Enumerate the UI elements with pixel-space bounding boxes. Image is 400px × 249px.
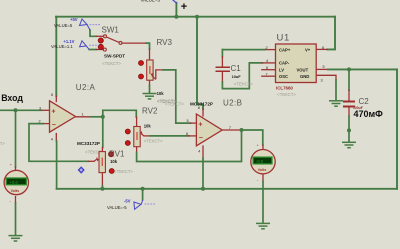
svg-text:U2:B: U2:B: [223, 99, 242, 108]
svg-text:Volts: Volts: [258, 168, 267, 172]
svg-text:8: 8: [198, 106, 200, 110]
ground below C2: [342, 142, 356, 147]
node junction U2:B pin4 rail: [201, 187, 205, 191]
svg-text:C2: C2: [359, 97, 370, 106]
wire U1 CAP+ pin2 to C1: [265, 49, 276, 51]
svg-text:+5V: +5V: [70, 17, 78, 22]
wire U2:B output pin7: [222, 129, 240, 131]
svg-text:5: 5: [187, 119, 189, 123]
svg-text:7: 7: [266, 72, 268, 76]
svg-text:<ТЕКСТ>: <ТЕКСТ>: [0, 141, 5, 146]
svg-text:VOUT: VOUT: [297, 67, 309, 72]
wire U2:B pin4 to -5V rail: [202, 146, 204, 158]
ground below U1 pin3: [329, 101, 343, 106]
wire U2:B pin8 stub: [202, 109, 204, 116]
wire U1 V+ branch: [328, 17, 336, 50]
wire U1 LV pin6 stub: [262, 69, 276, 71]
svg-text:<ТЕКСТ>: <ТЕКСТ>: [144, 138, 163, 143]
power terminal -5V: [134, 200, 155, 209]
wire U2:A output pin1: [76, 116, 91, 118]
wire U2:B supply drop: [197, 17, 203, 109]
svg-text:VALUE=1.1: VALUE=1.1: [51, 44, 73, 49]
potentiometer RV1: [94, 152, 105, 173]
svg-text:VALUE=-5: VALUE=-5: [107, 205, 127, 210]
svg-text:CAP+: CAP+: [279, 47, 291, 52]
svg-text:ICL7660: ICL7660: [276, 86, 293, 91]
svg-text:-0.0: -0.0: [256, 159, 264, 164]
power terminal +1.1V: [80, 41, 99, 50]
node junction input x=15.5: [14, 108, 18, 112]
svg-text:2: 2: [39, 120, 41, 124]
svg-text:4: 4: [51, 138, 53, 142]
wire U2:A pin2 feedback: [43, 123, 49, 125]
ground below voltmeter2: [256, 223, 270, 228]
wire SW1 pole to RV3 top: [122, 42, 146, 44]
wire C2 top lead: [348, 69, 350, 90]
wire top feed from edge at x=163: [175, 3, 177, 17]
svg-text:8: 8: [322, 46, 324, 50]
wire C1 top lead: [221, 50, 223, 57]
voltmeter VM2: [251, 150, 275, 174]
wire U2:A pin4 to -5V rail: [55, 134, 57, 142]
node junction output U2:B: [240, 128, 244, 132]
svg-text:7: 7: [229, 126, 231, 130]
svg-text:6: 6: [266, 66, 268, 70]
node junction VOUT C2: [347, 67, 351, 71]
capacitor C2: [343, 102, 355, 107]
potentiometer RV2: [134, 127, 144, 147]
svg-text:470мФ: 470мФ: [354, 109, 384, 119]
svg-text:<ТЕКСТ>: <ТЕКСТ>: [157, 99, 176, 104]
svg-text:SW1: SW1: [102, 25, 120, 34]
svg-text:<ТЕКСТ>: <ТЕКСТ>: [277, 92, 296, 97]
wire U1 OSC pin7 stub: [262, 75, 276, 77]
svg-text:+: +: [181, 1, 187, 13]
svg-text:<ТЕКСТ>: <ТЕКСТ>: [114, 169, 133, 174]
potentiometer RV3: [147, 60, 156, 80]
wire input Вход to U2:A pin3: [0, 109, 42, 111]
svg-text:SW-SPDT: SW-SPDT: [104, 54, 125, 59]
svg-text:MC33172P: MC33172P: [77, 141, 100, 146]
wire SW1 upper throw: [90, 30, 96, 36]
svg-text:RV2: RV2: [142, 106, 158, 115]
svg-text:3: 3: [321, 78, 323, 82]
node junction top rail x=163: [174, 15, 178, 19]
svg-text:U1: U1: [277, 33, 290, 44]
svg-text:+: +: [52, 108, 56, 115]
svg-text:10uF: 10uF: [232, 74, 242, 79]
svg-text:Volts: Volts: [11, 189, 20, 193]
svg-text:6: 6: [186, 132, 188, 136]
svg-text:4: 4: [266, 59, 268, 63]
wire U1 pin8 stub: [316, 48, 327, 50]
wire U1 VOUT pin5: [316, 68, 328, 70]
svg-text:3: 3: [39, 106, 41, 110]
wire voltmeter1 minus to ground: [15, 197, 17, 203]
node junction output U2:A: [101, 115, 105, 119]
node pin labels U2:B: [186, 106, 231, 153]
wire U2:A pin8 stub: [55, 96, 57, 102]
svg-text:MC33172P: MC33172P: [190, 101, 213, 106]
svg-text:GND: GND: [300, 74, 309, 79]
wire RV2 wiper to U2:B pin6: [144, 135, 150, 137]
node blue diamond marker: [78, 166, 85, 173]
svg-text:+1.1V: +1.1V: [63, 39, 74, 44]
wire output to RV2 top: [103, 110, 137, 117]
wire output to RV1 top: [102, 110, 104, 147]
svg-text:CAP-: CAP-: [279, 61, 290, 66]
ground below RV3: [143, 94, 157, 99]
wire -5V terminal drop: [142, 189, 144, 200]
wire voltmeter2 minus to ground: [262, 174, 264, 182]
wire left vertical rail to U2:A pin8: [55, 17, 57, 96]
svg-text:V+: V+: [305, 47, 311, 52]
wire RV3 wiper to U2:B pin5: [156, 70, 163, 79]
wire voltmeter1 plus lead: [15, 110, 17, 167]
svg-text:<ТЕКСТ>: <ТЕКСТ>: [102, 61, 121, 66]
capacitor C1: [215, 67, 229, 71]
svg-text:10k: 10k: [157, 91, 165, 96]
svg-text:VALUE=5: VALUE=5: [54, 23, 73, 28]
svg-text:RV3: RV3: [157, 38, 173, 47]
wire RV3 bottom to ground: [149, 80, 151, 85]
svg-text:10k: 10k: [144, 123, 152, 128]
wire right edge vertical VOUT: [396, 69, 398, 188]
svg-text:VALUE=5: VALUE=5: [141, 0, 161, 3]
node pin labels U1: [266, 46, 325, 83]
wire RV2 bottom feedback to U2:B output: [136, 147, 138, 152]
svg-text:RV1: RV1: [109, 150, 125, 159]
ground below voltmeter1: [9, 236, 23, 241]
wire C2 bottom lead to ground: [348, 108, 350, 117]
wire top rail: [56, 16, 335, 18]
svg-text:Вход: Вход: [1, 93, 23, 103]
svg-text:1: 1: [82, 113, 84, 117]
voltmeter VM1: [4, 170, 28, 194]
svg-text:C1: C1: [231, 64, 242, 73]
svg-text:<ТЕКСТ>: <ТЕКСТ>: [234, 82, 253, 87]
svg-text:LV: LV: [279, 67, 284, 72]
wire RV1 bottom to -5V rail: [101, 173, 103, 186]
svg-text:-5V: -5V: [124, 199, 131, 204]
node junction RV1 bottom rail: [100, 187, 104, 191]
svg-text:+0.0: +0.0: [10, 180, 19, 185]
svg-text:−: −: [52, 122, 56, 129]
wire SW1 lower throw: [89, 49, 96, 51]
svg-text:5: 5: [323, 65, 325, 69]
node junction top rail x=197: [195, 15, 199, 19]
op-amp U2:A: [50, 101, 76, 132]
svg-text:U2:A: U2:A: [76, 83, 96, 92]
switch SW1 SW-SPDT: [103, 35, 122, 51]
svg-text:10k: 10k: [110, 159, 118, 164]
node junction C2 lead: [347, 128, 351, 132]
node junction -5V terminal: [141, 187, 145, 191]
wire U2:B output to voltmeter2: [242, 130, 263, 145]
wire -5V bottom rail: [57, 188, 397, 190]
op-amp U2:B: [196, 114, 222, 146]
svg-text:2: 2: [266, 46, 268, 50]
power terminal +5V: [80, 19, 101, 30]
node SW1 toggle dots: [98, 38, 103, 43]
chip U1 ICL7660: [276, 44, 317, 83]
svg-text:4: 4: [198, 150, 200, 154]
svg-text:OSC: OSC: [279, 74, 288, 79]
svg-text:+: +: [198, 121, 202, 128]
wire U1 GND pin3 to ground: [316, 75, 336, 80]
svg-text:8: 8: [51, 93, 53, 97]
svg-text:−: −: [199, 135, 203, 142]
wire C1 bottom loop to U1 CAP- pin4: [221, 72, 223, 82]
node pin labels U2:A: [39, 93, 84, 142]
